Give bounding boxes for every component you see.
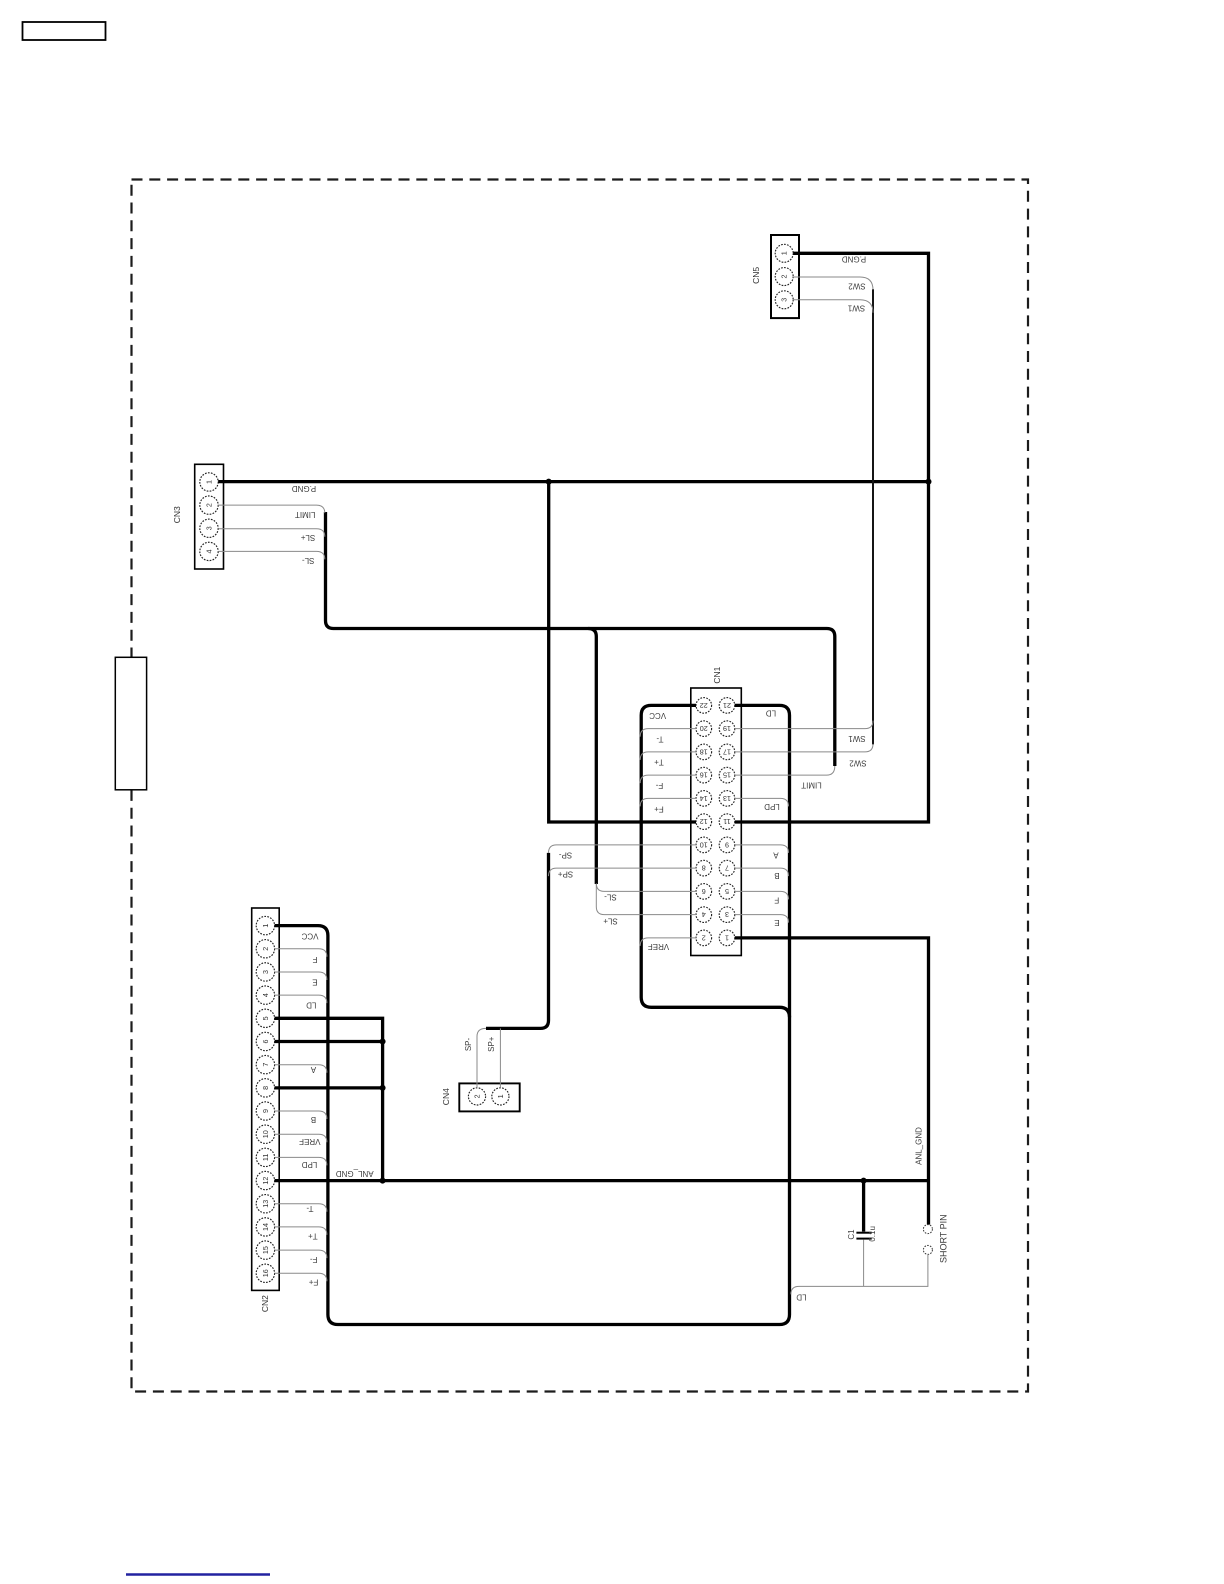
wire CN2 ground bus pin5 to ANL_GND trunk <box>275 1018 383 1180</box>
svg-text:21: 21 <box>723 701 731 710</box>
svg-text:13: 13 <box>723 794 731 803</box>
svg-text:1: 1 <box>205 480 214 484</box>
wire SW2 peel to CN1 pin17 <box>735 744 873 752</box>
wire LD from short pin bottom to main trunk <box>791 1254 928 1294</box>
wire P.GND from CN1 pin12 left, down-left corner <box>549 482 696 822</box>
svg-text:LD: LD <box>766 708 776 717</box>
short pin circle upper <box>923 1225 932 1234</box>
svg-text:6: 6 <box>702 887 706 896</box>
svg-text:7: 7 <box>725 864 729 873</box>
blue footer line <box>126 1573 270 1575</box>
svg-text:12: 12 <box>700 817 708 826</box>
svg-text:3: 3 <box>725 910 729 919</box>
svg-text:F-: F- <box>310 1255 318 1264</box>
svg-text:3: 3 <box>205 526 214 530</box>
wire T- stub CN2 pin13 <box>275 1204 327 1212</box>
svg-text:15: 15 <box>261 1246 270 1254</box>
connector CN2 body <box>252 908 280 1290</box>
svg-text:2: 2 <box>473 1094 482 1098</box>
wire CN3 pin3 SL+ stub <box>218 529 325 537</box>
wire CN3 bundle trunk (LIMIT/SL+/SL-) down and right, down toward CN1 pin15 <box>326 512 835 766</box>
wire main harness trunk CN2 pin1 down, along bottom, up to CN1 pin21 (LD) <box>275 705 790 1324</box>
svg-text:SW1: SW1 <box>847 303 865 312</box>
svg-text:16: 16 <box>261 1269 270 1277</box>
svg-text:11: 11 <box>723 817 730 826</box>
svg-text:LIMIT: LIMIT <box>801 781 822 790</box>
svg-text:SL+: SL+ <box>300 533 315 542</box>
wire CN3 pin4 SL- stub <box>218 551 325 559</box>
svg-text:T-: T- <box>656 735 663 744</box>
wire P.GND trunk: CN5 pin1 right, down right side, across CN1 row12, up to CN3 row <box>735 253 929 822</box>
svg-text:20: 20 <box>700 724 708 733</box>
svg-text:18: 18 <box>700 747 708 756</box>
junction ground bus pin8 <box>380 1085 386 1091</box>
svg-text:CN3: CN3 <box>172 506 182 523</box>
svg-text:2: 2 <box>702 933 706 942</box>
wire T+ stub CN1 left <box>640 752 696 760</box>
wire CN4 pin1 lead <box>499 1028 501 1087</box>
svg-text:LPD: LPD <box>301 1160 317 1169</box>
wire F+ stub CN1 left <box>640 798 696 806</box>
svg-text:LIMIT: LIMIT <box>295 510 316 519</box>
wire B stub CN2 pin9 <box>275 1111 327 1119</box>
wire E stub CN2 pin3 <box>275 972 327 980</box>
svg-text:10: 10 <box>261 1130 270 1138</box>
svg-text:4: 4 <box>702 910 706 919</box>
wire LD stub CN2 pin4 <box>275 995 327 1003</box>
title block rectangle top-left <box>23 22 106 40</box>
wire SP+ stub CN1 pin8 <box>549 868 697 876</box>
svg-text:A: A <box>310 1065 316 1074</box>
svg-text:LD: LD <box>796 1293 806 1302</box>
svg-text:14: 14 <box>700 794 708 803</box>
wire F- stub CN1 left <box>640 775 696 783</box>
svg-text:9: 9 <box>261 1109 270 1113</box>
wire ANL_GND: CN1 pin1 right, down right side to short pin <box>735 938 929 1225</box>
svg-text:22: 22 <box>700 701 708 710</box>
svg-text:1: 1 <box>725 933 729 942</box>
svg-text:E: E <box>312 978 317 987</box>
svg-text:F+: F+ <box>308 1278 318 1287</box>
svg-text:10: 10 <box>700 840 708 849</box>
wire VREF stub CN2 pin10 <box>275 1134 327 1142</box>
svg-text:ANL_GND: ANL_GND <box>336 1169 374 1178</box>
svg-text:1: 1 <box>496 1094 505 1098</box>
wire A stub CN2 pin7 <box>275 1065 327 1073</box>
svg-text:1: 1 <box>261 924 270 928</box>
svg-text:LPD: LPD <box>764 802 780 811</box>
svg-text:P.GND: P.GND <box>292 484 317 493</box>
wire CN4 pin2 lead <box>477 1028 486 1087</box>
capacitor C1 top lead <box>862 1181 865 1232</box>
wire SP bundle vertical + CN4 trunk <box>486 853 549 1029</box>
wire B stub CN1 right <box>735 868 789 876</box>
svg-text:SL+: SL+ <box>603 917 618 926</box>
svg-text:VREF: VREF <box>299 1137 320 1146</box>
wire LIMIT peel-off into CN1 pin15 <box>735 766 835 775</box>
wire ANL_GND horizontal trunk to CN2 pin 12 <box>275 1179 929 1182</box>
svg-text:3: 3 <box>261 970 270 974</box>
svg-text:12: 12 <box>261 1177 270 1185</box>
capacitor C1 bottom lead <box>863 1240 865 1287</box>
svg-text:17: 17 <box>723 747 731 756</box>
svg-text:2: 2 <box>261 947 270 951</box>
svg-text:11: 11 <box>261 1154 270 1161</box>
svg-text:ANL_GND: ANL_GND <box>914 1127 923 1165</box>
svg-text:CN5: CN5 <box>751 267 761 284</box>
svg-text:SW1: SW1 <box>848 734 866 743</box>
svg-text:SP-: SP- <box>464 1038 473 1052</box>
wire LPD stub CN2 pin11 <box>275 1157 327 1165</box>
svg-text:16: 16 <box>700 771 708 780</box>
junction ground bus at ANL_GND trunk <box>380 1178 386 1184</box>
svg-text:SW2: SW2 <box>849 758 867 767</box>
wire VREF stub CN1 left <box>640 938 696 946</box>
wire CN2 pin8 ground stub <box>275 1086 383 1089</box>
wire CN3 pin2 LIMIT stub <box>218 505 325 513</box>
wire F stub CN1 right <box>735 891 789 899</box>
svg-text:CN2: CN2 <box>260 1295 270 1312</box>
wire VCC branch: CN1 pin22 left, down, right into main trunk <box>641 705 789 1017</box>
wire T- stub CN1 left <box>640 729 696 737</box>
svg-text:2: 2 <box>205 503 214 507</box>
svg-text:F: F <box>312 955 317 964</box>
svg-text:VCC: VCC <box>301 931 318 940</box>
svg-text:9: 9 <box>725 840 729 849</box>
connector CN5 body <box>771 235 799 318</box>
svg-text:F+: F+ <box>654 805 664 814</box>
connector CN3 body <box>195 464 224 569</box>
junction P.GND at right trunk <box>926 479 932 485</box>
svg-text:SP-: SP- <box>559 850 573 859</box>
svg-text:VREF: VREF <box>648 942 669 951</box>
connector CN1 body <box>691 688 742 956</box>
wire SP- stub CN1 pin10 <box>549 845 697 853</box>
svg-text:T+: T+ <box>654 758 664 767</box>
wire E stub CN1 right <box>735 915 789 923</box>
short pin circle lower <box>923 1245 932 1254</box>
svg-text:P.GND: P.GND <box>842 255 867 264</box>
svg-text:F-: F- <box>655 781 663 790</box>
svg-text:1: 1 <box>780 251 789 255</box>
svg-text:T+: T+ <box>308 1232 318 1241</box>
svg-text:5: 5 <box>261 1016 270 1020</box>
svg-text:CN4: CN4 <box>441 1088 451 1105</box>
junction C1 at ANL_GND trunk <box>861 1178 867 1184</box>
capacitor C1 plates <box>856 1232 871 1234</box>
svg-text:13: 13 <box>261 1200 270 1208</box>
wire SL branch from bundle down to CN1 pins 6,4 <box>588 629 596 885</box>
svg-text:F: F <box>774 896 779 905</box>
svg-text:B: B <box>311 1115 316 1124</box>
svg-text:SL-: SL- <box>302 556 315 565</box>
wire F- stub CN2 pin15 <box>275 1250 327 1258</box>
junction ground bus pin6 <box>380 1039 386 1045</box>
svg-text:SL-: SL- <box>604 893 617 902</box>
wire SL+ continuation to CN1 pin4 <box>596 884 696 915</box>
svg-text:E: E <box>774 918 779 927</box>
svg-text:T-: T- <box>306 1204 313 1213</box>
wire F stub CN2 pin2 <box>275 949 327 957</box>
wire LPD stub CN1 right <box>735 798 789 806</box>
dashed border frame <box>132 180 1029 1392</box>
revision rectangle on left frame edge <box>115 657 146 790</box>
svg-text:5: 5 <box>725 887 729 896</box>
svg-text:C1: C1 <box>847 1229 856 1240</box>
svg-text:7: 7 <box>261 1063 270 1067</box>
svg-text:B: B <box>774 871 779 880</box>
svg-text:15: 15 <box>723 771 731 780</box>
svg-text:0.1u: 0.1u <box>868 1226 877 1242</box>
wire F+ stub CN2 pin16 <box>275 1273 327 1281</box>
svg-text:SP+: SP+ <box>558 869 574 878</box>
svg-text:2: 2 <box>780 275 789 279</box>
wire SW trunk between CN5 pins2,3 and CN1 pins19,17 <box>872 289 874 745</box>
wire A stub CN1 right <box>735 845 789 853</box>
svg-text:3: 3 <box>780 298 789 302</box>
svg-text:4: 4 <box>261 993 270 997</box>
svg-text:VCC: VCC <box>649 711 666 720</box>
wire P.GND: CN3 pin1 to right vertical trunk <box>218 480 928 483</box>
wire SW1 stub from CN5 pin3 <box>793 300 873 313</box>
wire SL- peel to CN1 pin6 <box>596 883 696 891</box>
svg-text:8: 8 <box>702 864 706 873</box>
wire CN2 pin6 ground stub <box>275 1040 383 1043</box>
svg-text:6: 6 <box>261 1040 270 1044</box>
svg-text:SW2: SW2 <box>848 281 866 290</box>
svg-text:19: 19 <box>723 724 731 733</box>
svg-text:SP+: SP+ <box>487 1036 496 1052</box>
svg-text:14: 14 <box>261 1223 270 1231</box>
junction P.GND at CN3 branch <box>546 479 552 485</box>
wire SW2 stub from CN5 pin2 <box>793 277 873 290</box>
svg-text:LD: LD <box>306 1000 316 1009</box>
connector CN4 body <box>459 1083 519 1111</box>
svg-text:A: A <box>773 851 779 860</box>
svg-text:SHORT PIN: SHORT PIN <box>939 1214 949 1263</box>
wire SW1 peel to CN1 pin19 <box>735 721 873 729</box>
wire T+ stub CN2 pin14 <box>275 1227 327 1235</box>
svg-text:CN1: CN1 <box>712 666 722 683</box>
svg-text:4: 4 <box>205 549 214 553</box>
svg-text:8: 8 <box>261 1086 270 1090</box>
